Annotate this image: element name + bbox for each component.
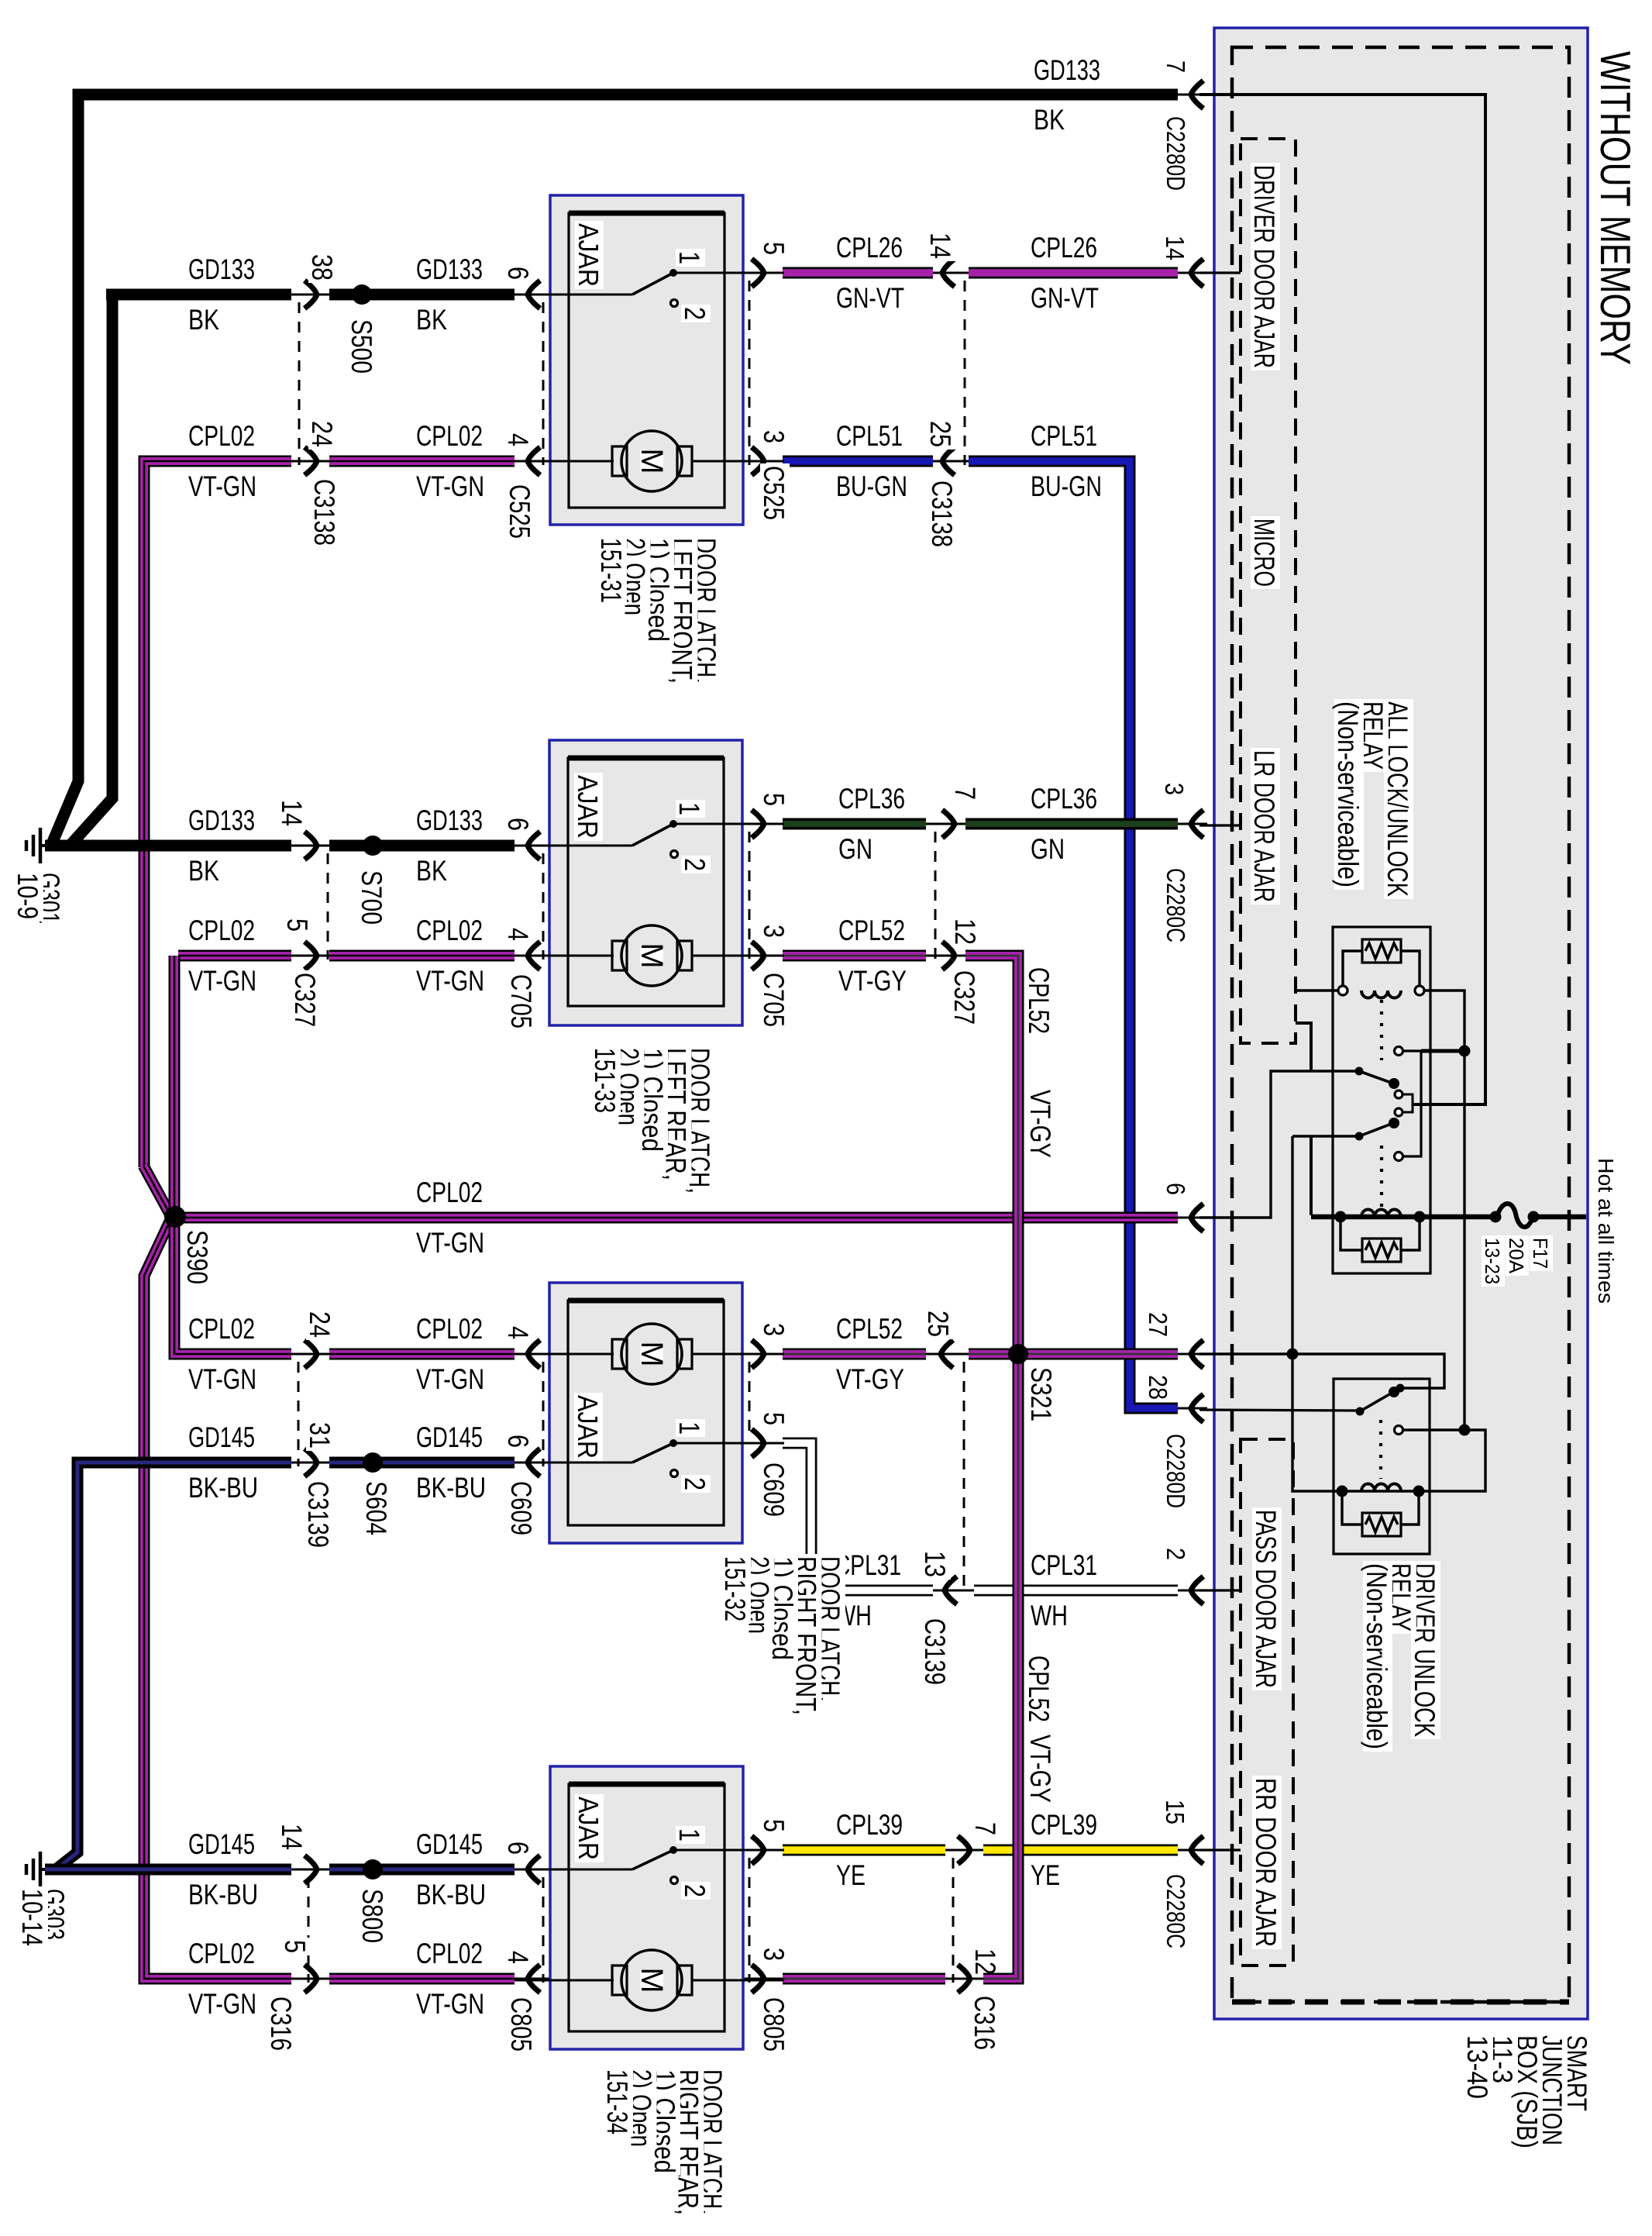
svg-text:C525: C525 <box>504 484 535 539</box>
svg-text:YE: YE <box>1031 1859 1060 1891</box>
wire pin2 stub <box>1199 1589 1241 1591</box>
svg-text:5: 5 <box>281 918 313 932</box>
label fuse F17 20A 13-23 <box>1530 1235 1553 1271</box>
svg-text:(Non-serviceable): (Non-serviceable) <box>1332 701 1364 887</box>
svg-text:5: 5 <box>758 793 790 806</box>
svg-text:7: 7 <box>1162 60 1190 73</box>
svg-text:S604: S604 <box>360 1481 392 1535</box>
svg-text:VT-GY: VT-GY <box>1024 1735 1056 1803</box>
svg-text:25: 25 <box>924 421 956 447</box>
wire pin27 row to relay2 arm <box>1199 1354 1444 1388</box>
svg-text:C805: C805 <box>505 1997 537 2052</box>
wire pin7 GD133 to relay common <box>1199 95 1485 1104</box>
relay K1 actuator dotted <box>1380 1000 1383 1060</box>
svg-text:10-14: 10-14 <box>16 1889 48 1946</box>
label Hot at all times <box>1595 1156 1619 1306</box>
svg-text:CPL52: CPL52 <box>1023 967 1055 1034</box>
svg-text:13-40: 13-40 <box>1461 2035 1493 2099</box>
svg-text:C3138: C3138 <box>308 479 340 546</box>
svg-text:S390: S390 <box>181 1230 213 1284</box>
svg-text:VT-GY: VT-GY <box>838 965 907 997</box>
svg-text:7: 7 <box>969 1822 1001 1835</box>
svg-text:2: 2 <box>679 858 711 871</box>
svg-text:CPL51: CPL51 <box>836 420 903 452</box>
smart junction box SJB <box>1214 28 1588 2019</box>
svg-text:VT-GN: VT-GN <box>188 1988 256 2020</box>
svg-text:MICRO: MICRO <box>1248 519 1280 587</box>
svg-text:10-9: 10-9 <box>12 873 43 919</box>
svg-text:15: 15 <box>1161 1800 1189 1824</box>
svg-text:CPL52: CPL52 <box>838 915 905 946</box>
motor left rear <box>515 955 614 957</box>
svg-text:C705: C705 <box>758 973 790 1027</box>
svg-text:VT-GY: VT-GY <box>836 1363 904 1395</box>
svg-text:CPL52: CPL52 <box>836 1313 903 1345</box>
label GD133 top <box>1031 58 1103 86</box>
svg-text:38: 38 <box>306 254 338 281</box>
svg-text:GD133: GD133 <box>1034 54 1100 86</box>
relay K2 actuator dotted <box>1379 1420 1382 1479</box>
svg-text:CPL02: CPL02 <box>416 1938 483 1969</box>
wire CPL39 yellow row <box>673 1849 789 1852</box>
splice S604 <box>363 1452 383 1473</box>
svg-text:BK-BU: BK-BU <box>188 1472 258 1504</box>
splice S390 <box>143 1166 170 1214</box>
relay K1 label <box>1384 699 1413 899</box>
wire CPL26 left segment <box>673 272 789 274</box>
svg-text:7: 7 <box>949 787 981 800</box>
svg-text:YE: YE <box>836 1859 866 1891</box>
svg-text:151-34: 151-34 <box>601 2069 633 2134</box>
svg-text:S700: S700 <box>356 870 387 925</box>
label AJAR right rear <box>575 1794 604 1862</box>
svg-text:GN: GN <box>838 833 872 865</box>
wire CPL51 right segment down to pin28 <box>969 461 1178 1408</box>
wire CPL52 right front to S321 / pin27 <box>696 1353 789 1356</box>
svg-text:CPL02: CPL02 <box>188 915 255 946</box>
svg-text:M: M <box>635 942 669 968</box>
relay K2 NO contact <box>1395 1426 1403 1435</box>
relay K1 suppression resistor top <box>1362 939 1401 963</box>
wire CPL26 right segment <box>969 267 1178 279</box>
door latch left front box <box>550 195 743 525</box>
svg-text:BK-BU: BK-BU <box>188 1879 258 1910</box>
label door latch right rear <box>698 2067 728 2217</box>
switch right rear <box>515 1869 632 1871</box>
relay K2 label <box>1411 1561 1440 1739</box>
svg-text:C327: C327 <box>289 973 321 1027</box>
svg-text:GD133: GD133 <box>188 253 255 285</box>
svg-text:4: 4 <box>502 928 534 941</box>
switch right front <box>515 1462 632 1464</box>
svg-text:14: 14 <box>276 800 308 826</box>
connector C3138 right dashes <box>964 281 966 465</box>
wire pin28 stub to relay2 pivot <box>1199 1410 1358 1411</box>
wire CPL52 right rear segment <box>696 1978 789 1980</box>
label RR DOOR AJAR <box>1252 1776 1282 1949</box>
svg-text:C3138: C3138 <box>926 481 958 547</box>
svg-text:CPL36: CPL36 <box>1031 783 1097 815</box>
svg-text:GD145: GD145 <box>188 1421 255 1453</box>
svg-text:2: 2 <box>679 1477 711 1490</box>
wire relay1 coil right to relay2 NO line <box>1424 991 1464 1430</box>
svg-text:6: 6 <box>502 267 534 280</box>
connector C327 left dashes <box>327 853 329 960</box>
svg-text:VT-GN: VT-GN <box>416 965 484 997</box>
wire pin15 stub <box>1199 1848 1241 1851</box>
door latch right front box <box>549 1283 742 1543</box>
svg-text:GD145: GD145 <box>416 1421 483 1453</box>
svg-text:2: 2 <box>1162 1548 1190 1560</box>
wire CPL02 main row <box>174 1212 1178 1224</box>
svg-text:13: 13 <box>919 1551 951 1577</box>
svg-text:CPL02: CPL02 <box>188 1938 255 1969</box>
wire lower arm pivot line <box>1292 1135 1359 1137</box>
svg-text:C609: C609 <box>505 1481 537 1535</box>
svg-text:CPL02: CPL02 <box>416 420 483 452</box>
wire CPL52 vertical <box>965 956 1018 1979</box>
svg-text:14: 14 <box>1161 236 1189 260</box>
switch left front <box>515 294 632 296</box>
svg-text:24: 24 <box>304 1311 336 1338</box>
svg-text:BU-GN: BU-GN <box>1031 470 1102 502</box>
svg-text:2: 2 <box>679 307 711 320</box>
label LR DOOR AJAR <box>1251 748 1280 904</box>
label door latch right front <box>816 1554 845 1704</box>
svg-text:C705: C705 <box>505 974 537 1028</box>
relay K2 coil <box>1342 1490 1419 1492</box>
svg-text:VT-GN: VT-GN <box>188 965 256 997</box>
svg-text:AJAR: AJAR <box>573 1797 604 1860</box>
svg-text:GN-VT: GN-VT <box>1031 282 1099 314</box>
svg-text:BK: BK <box>1034 104 1065 136</box>
wire CPL52 left rear segment <box>696 955 789 957</box>
relay K1 coil top <box>1296 989 1338 991</box>
svg-text:C3139: C3139 <box>919 1618 951 1685</box>
connector C316 left dashes <box>308 1877 310 1983</box>
svg-text:VT-GN: VT-GN <box>188 470 256 502</box>
svg-text:GN-VT: GN-VT <box>836 282 904 314</box>
wire hot feed vertical to lower arm <box>1310 1136 1313 1215</box>
micro dashed box <box>1241 139 1296 1043</box>
svg-text:6: 6 <box>502 1842 534 1855</box>
svg-text:GD145: GD145 <box>416 1828 483 1860</box>
svg-text:151-32: 151-32 <box>719 1556 751 1621</box>
svg-text:1: 1 <box>673 1421 705 1435</box>
svg-text:C327: C327 <box>948 970 980 1025</box>
svg-text:C2280D: C2280D <box>1162 116 1190 191</box>
svg-text:AJAR: AJAR <box>573 223 604 287</box>
svg-text:BK-BU: BK-BU <box>416 1879 486 1910</box>
svg-text:C316: C316 <box>265 1997 297 2051</box>
svg-text:CPL02: CPL02 <box>416 1177 483 1208</box>
svg-text:VT-GY: VT-GY <box>1024 1090 1056 1158</box>
svg-text:12: 12 <box>949 918 981 945</box>
svg-text:CPL26: CPL26 <box>1031 232 1097 264</box>
label WITHOUT MEMORY <box>1597 49 1637 367</box>
splice S321 <box>1008 1344 1028 1364</box>
svg-text:6: 6 <box>502 1435 534 1448</box>
svg-text:3: 3 <box>758 925 790 938</box>
wire GD145 right rear row from G303 <box>45 1864 291 1876</box>
wire GD133 left rear row from G301 <box>45 840 291 852</box>
svg-text:CPL02: CPL02 <box>188 1313 255 1345</box>
svg-text:CPL39: CPL39 <box>836 1809 903 1841</box>
svg-text:CPL39: CPL39 <box>1031 1809 1097 1841</box>
svg-text:CPL02: CPL02 <box>188 420 255 452</box>
svg-text:LR DOOR AJAR: LR DOOR AJAR <box>1248 750 1280 902</box>
svg-text:5: 5 <box>758 1819 790 1832</box>
connector C327 right dashes <box>934 832 937 960</box>
wire pin6 CPL02 to relay upper arm <box>1199 1071 1359 1218</box>
svg-text:28: 28 <box>1144 1375 1172 1400</box>
svg-text:S500: S500 <box>346 319 377 374</box>
svg-text:1: 1 <box>673 802 705 815</box>
svg-text:27: 27 <box>1144 1312 1172 1337</box>
svg-text:4: 4 <box>502 433 534 446</box>
svg-text:VT-GN: VT-GN <box>416 470 484 502</box>
label C2280D top <box>1163 114 1190 193</box>
pass/rr door ajar dashed box <box>1241 1439 1293 1966</box>
svg-text:13-23: 13-23 <box>1481 1238 1504 1284</box>
wire GD133 left front row <box>106 289 291 301</box>
svg-text:5: 5 <box>279 1940 311 1953</box>
connector C3139 right dashes <box>963 1362 965 1594</box>
svg-text:GD133: GD133 <box>416 253 483 285</box>
SJB inner dashed border <box>1232 47 1569 2002</box>
svg-text:BK: BK <box>188 855 219 887</box>
svg-text:C2280C: C2280C <box>1162 1874 1190 1948</box>
wire hot at all times / F17 power row <box>1311 1214 1491 1220</box>
svg-text:CPL31: CPL31 <box>1031 1549 1097 1581</box>
wire CPL36 right segment <box>965 818 1178 830</box>
svg-text:RR DOOR AJAR: RR DOOR AJAR <box>1250 1778 1282 1947</box>
svg-text:25: 25 <box>922 1311 954 1337</box>
svg-text:GD133: GD133 <box>188 804 255 836</box>
svg-text:CPL02: CPL02 <box>416 915 483 946</box>
svg-text:12: 12 <box>969 1948 1001 1975</box>
svg-text:S800: S800 <box>356 1889 388 1943</box>
svg-text:3: 3 <box>758 1948 790 1961</box>
wire CPL51 left segment <box>696 460 789 463</box>
svg-text:(Non-serviceable): (Non-serviceable) <box>1361 1563 1392 1749</box>
wire GD133 left front branch down to G301 <box>71 295 112 844</box>
svg-text:C609: C609 <box>758 1463 790 1517</box>
switch left rear <box>515 845 632 847</box>
svg-text:1: 1 <box>673 1828 705 1842</box>
label AJAR left front <box>575 221 604 289</box>
splice S500 <box>352 284 372 305</box>
relay K2 switch arm <box>1360 1391 1395 1411</box>
svg-text:CPL26: CPL26 <box>836 232 903 264</box>
svg-text:24: 24 <box>306 421 338 447</box>
fuse F17 <box>1497 1204 1533 1227</box>
svg-text:3: 3 <box>758 430 790 443</box>
svg-text:M: M <box>635 1967 669 1993</box>
relay K1 NO contacts <box>1395 1047 1403 1056</box>
svg-text:GN: GN <box>1031 833 1065 865</box>
relay K2 suppression resistor <box>1362 1513 1401 1536</box>
connector C316 right dashes <box>952 1858 955 1983</box>
svg-text:3: 3 <box>1160 783 1189 795</box>
svg-text:20A: 20A <box>1505 1238 1528 1274</box>
svg-text:AJAR: AJAR <box>572 1395 604 1459</box>
svg-text:VT-GN: VT-GN <box>416 1363 484 1395</box>
svg-text:CPL51: CPL51 <box>1031 420 1097 452</box>
svg-text:CPL52: CPL52 <box>1023 1655 1055 1722</box>
svg-text:GD145: GD145 <box>188 1828 255 1860</box>
svg-text:1: 1 <box>673 251 705 264</box>
label AJAR right front <box>574 1393 603 1461</box>
label DRIVER DOOR AJAR <box>1251 163 1280 370</box>
svg-text:3: 3 <box>758 1323 790 1336</box>
svg-text:4: 4 <box>502 1326 534 1339</box>
svg-text:CPL36: CPL36 <box>838 783 905 815</box>
ground G303 <box>40 1868 59 1871</box>
svg-text:C2280D: C2280D <box>1162 1434 1190 1508</box>
svg-text:M: M <box>635 1341 669 1366</box>
svg-text:Hot at all times: Hot at all times <box>1594 1158 1618 1304</box>
wire CPL31 white <box>673 1442 782 1445</box>
svg-text:PASS DOOR AJAR: PASS DOOR AJAR <box>1250 1510 1282 1688</box>
svg-text:C805: C805 <box>758 1997 790 2052</box>
relay K1 ALL LOCK/UNLOCK RELAY <box>1333 927 1430 1273</box>
motor left front <box>515 460 614 463</box>
relay K2 DRIVER UNLOCK RELAY <box>1334 1379 1430 1554</box>
splice S700 <box>363 835 383 856</box>
connector C3139 left dashes <box>298 1362 300 1466</box>
svg-text:BU-GN: BU-GN <box>836 470 907 502</box>
svg-text:BK: BK <box>416 855 447 887</box>
svg-text:DRIVER DOOR AJAR: DRIVER DOOR AJAR <box>1248 165 1280 368</box>
wire CPL02 left front row <box>144 461 291 1167</box>
ground G301 <box>40 844 59 847</box>
svg-text:14: 14 <box>924 233 956 259</box>
svg-text:AJAR: AJAR <box>572 775 604 839</box>
svg-text:C525: C525 <box>758 466 790 520</box>
wire pin14 stub <box>1199 271 1241 274</box>
svg-text:31: 31 <box>304 1422 336 1449</box>
svg-text:WITHOUT MEMORY: WITHOUT MEMORY <box>1592 51 1640 365</box>
wire pin3 stub <box>1199 824 1241 826</box>
splice S800 <box>363 1859 383 1879</box>
svg-text:14: 14 <box>276 1824 308 1850</box>
wire CPL02 right front row <box>174 1347 291 1354</box>
relay K1 suppression resistor bottom <box>1362 1239 1401 1262</box>
svg-text:GD133: GD133 <box>416 804 483 836</box>
wire lower arm to pin27 node and relay2 coil <box>1292 1136 1342 1491</box>
wire CPL36 left segment <box>673 823 789 825</box>
svg-text:C2280C: C2280C <box>1162 868 1190 942</box>
door latch left rear box <box>549 740 742 1025</box>
wire CPL02 left rear row <box>178 950 291 962</box>
door latch right rear box <box>550 1766 743 2049</box>
relay K1 power coil <box>1361 1210 1401 1218</box>
svg-text:151-33: 151-33 <box>589 1048 621 1113</box>
svg-text:C3139: C3139 <box>302 1481 334 1548</box>
wire micro output to upper arm line <box>1296 1023 1311 1071</box>
svg-text:WH: WH <box>1031 1600 1068 1631</box>
svg-text:F17: F17 <box>1529 1238 1552 1269</box>
label PASS DOOR AJAR <box>1252 1507 1282 1690</box>
svg-text:BK: BK <box>188 304 219 336</box>
svg-text:5: 5 <box>758 242 790 255</box>
svg-text:VT-GN: VT-GN <box>188 1363 256 1395</box>
motor right rear <box>515 1979 614 1982</box>
svg-text:C316: C316 <box>969 1996 1000 2050</box>
label door latch left front <box>692 536 721 686</box>
connector C525 dashes <box>749 281 751 465</box>
connector C3138 left dashes <box>298 302 301 465</box>
relay K1 switch arms <box>1359 1071 1396 1084</box>
label AJAR left rear <box>574 773 603 841</box>
svg-text:VT-GN: VT-GN <box>416 1988 484 2020</box>
svg-text:M: M <box>635 448 669 474</box>
svg-text:BK-BU: BK-BU <box>416 1472 486 1504</box>
wire CPL02 right rear row <box>178 1973 291 1985</box>
wire GD133 top from pin7 to left edge down to G301 <box>53 95 1178 842</box>
svg-text:4: 4 <box>502 1951 534 1964</box>
label door latch left rear <box>686 1046 715 1196</box>
label SMART JUNCTION BOX (SJB) <box>1563 2033 1592 2114</box>
svg-text:S321: S321 <box>1025 1367 1057 1421</box>
svg-text:2: 2 <box>679 1884 711 1897</box>
svg-text:5: 5 <box>758 1412 790 1425</box>
wire GD145 right front row <box>329 1457 515 1469</box>
motor right front <box>515 1353 614 1356</box>
svg-text:6: 6 <box>1162 1183 1190 1195</box>
svg-text:CPL02: CPL02 <box>416 1313 483 1345</box>
label MICRO <box>1251 516 1280 589</box>
svg-text:BK: BK <box>416 304 447 336</box>
svg-text:6: 6 <box>502 818 534 831</box>
svg-text:VT-GN: VT-GN <box>416 1227 484 1259</box>
svg-text:151-31: 151-31 <box>595 538 627 603</box>
relay K1 common output <box>1413 1104 1418 1106</box>
